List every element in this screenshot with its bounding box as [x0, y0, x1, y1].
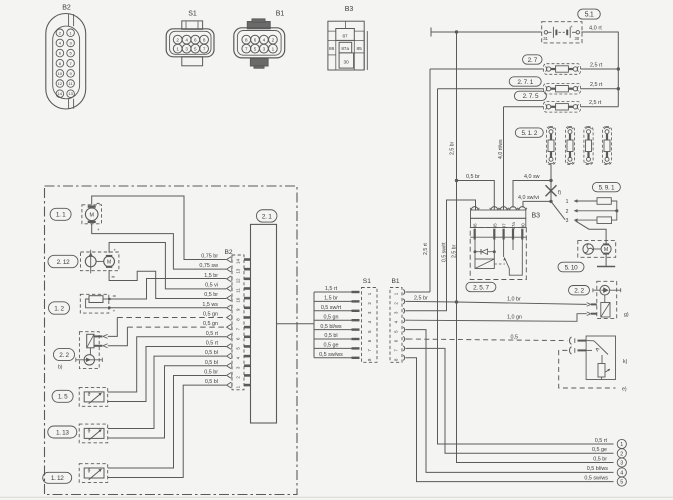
svg-text:0,5 ge: 0,5 ge: [324, 343, 339, 349]
relay socket B3 (face view): [328, 21, 367, 70]
S1 male pin 6: [352, 338, 360, 340]
svg-text:0,5 bl: 0,5 bl: [205, 379, 218, 385]
terminal 3 circle: [617, 458, 626, 467]
svg-text:5: 5: [367, 330, 372, 333]
fuse 5.1.2-3: [584, 127, 593, 165]
wire fuse 2.7 input: [430, 68, 544, 70]
blower 5.10 label: [558, 262, 584, 272]
svg-text:2: 2: [272, 37, 275, 42]
svg-text:M: M: [89, 213, 94, 219]
wire 0,5 rt fuse 2.7.1 down: [438, 89, 614, 444]
svg-text:2,5 br: 2,5 br: [414, 295, 428, 301]
svg-text:11: 11: [69, 81, 74, 86]
wire 0,5 br 1.12 to B2.2: [108, 375, 227, 468]
wire 4,0 rt/ws fuse 2.7.5 to relay 30: [503, 107, 505, 210]
svg-text:2: 2: [176, 37, 179, 42]
svg-text:10: 10: [58, 71, 63, 76]
svg-text:0,5 sw/ws: 0,5 sw/ws: [584, 475, 608, 481]
svg-text:2. 2: 2. 2: [574, 288, 584, 295]
svg-text:2,5 rt: 2,5 rt: [590, 63, 603, 69]
svg-text:3: 3: [236, 366, 241, 369]
wire 0,5 bl to S1 pin 6: [314, 338, 352, 340]
svg-text:5.1: 5.1: [585, 12, 594, 19]
svg-text:+: +: [97, 227, 100, 232]
svg-text:1: 1: [236, 385, 241, 388]
fuse 5.1.2-4: [602, 127, 611, 165]
fuse 2.7 label: [523, 55, 543, 64]
fuse bank 5.1.2 label: [515, 128, 543, 137]
splice f) X symbol: [546, 185, 557, 196]
svg-text:5: 5: [194, 46, 197, 51]
connector strip B1 housing with contacts: [390, 288, 408, 363]
wire 0,5 ge B1.7 to terminal 2: [408, 348, 614, 453]
svg-text:30: 30: [575, 36, 580, 41]
svg-text:2. 5. 7: 2. 5. 7: [473, 284, 489, 291]
wire 0,5 sw/rt to S1 pin 3: [314, 310, 352, 312]
svg-text:4: 4: [394, 320, 399, 323]
svg-text:+: +: [113, 248, 116, 253]
svg-text:4,0 rt: 4,0 rt: [589, 25, 602, 31]
svg-text:0,5 bl: 0,5 bl: [205, 350, 218, 356]
svg-text:5: 5: [620, 480, 623, 486]
harness bundle vertical: [313, 292, 315, 358]
fuse 2.7: [544, 64, 581, 75]
svg-text:1,5 br: 1,5 br: [324, 296, 338, 302]
S1 male pin 1: [352, 291, 360, 293]
terminal 4 circle: [617, 468, 626, 477]
wire 0,75 br 1.1 to B2.14: [92, 196, 227, 260]
junction dot 4,0 sw/vi: [549, 200, 552, 203]
wire 0,5 sw/rt B1.3 to relay 86: [408, 200, 476, 311]
fuse 2.7.1 label: [509, 77, 541, 86]
svg-text:30: 30: [344, 60, 350, 66]
svg-text:5. 9. 1: 5. 9. 1: [599, 184, 615, 191]
svg-text:M: M: [107, 260, 111, 266]
svg-text:1: 1: [69, 30, 72, 35]
svg-text:0,75 sw: 0,75 sw: [199, 263, 218, 269]
wire e) (dashed): [559, 350, 616, 388]
svg-text:4: 4: [185, 37, 188, 42]
svg-text:ϑ: ϑ: [88, 468, 91, 474]
terminal end bar at wire start: [430, 28, 432, 37]
svg-text:0,5 br: 0,5 br: [466, 174, 480, 180]
relay 2.5.7 (coil, freewheel diode, changeover contact): [470, 228, 526, 280]
control unit 2.1 label: [256, 210, 277, 222]
wire 2,5 rt B1.1 from fuse 2.7: [408, 291, 431, 293]
svg-text:7: 7: [367, 349, 372, 352]
svg-text:0,5 br: 0,5 br: [204, 292, 218, 298]
temperature sensor 1.5: [79, 388, 108, 407]
relay 2.5.7 label: [466, 282, 496, 291]
wire 4,0 sw relay pin4 to fan fuse: [513, 181, 551, 208]
wire fuse 2.7.1 to bus: [581, 88, 619, 90]
wire 1,0 gn B1.4 to g): [408, 314, 587, 322]
svg-text:0,5 vi: 0,5 vi: [205, 282, 218, 288]
svg-text:4: 4: [263, 37, 266, 42]
S1 male pin 5: [352, 328, 360, 330]
svg-text:0,5 bl: 0,5 bl: [324, 333, 337, 339]
svg-text:2,5 br: 2,5 br: [451, 244, 457, 258]
svg-text:31: 31: [543, 36, 548, 41]
wire 0,5 br 2.12 to B2.10: [109, 270, 226, 298]
svg-text:3: 3: [263, 46, 266, 51]
svg-text:3: 3: [69, 40, 72, 45]
wire 1,5 rt to S1 pin 1: [314, 291, 352, 293]
connector B1 (8-pin face view): [234, 19, 285, 68]
svg-text:0,5 br: 0,5 br: [593, 456, 607, 462]
component 1.12 label: [43, 472, 72, 483]
svg-text:B3: B3: [532, 213, 541, 220]
svg-text:6: 6: [394, 339, 399, 342]
svg-text:87a: 87a: [341, 46, 349, 51]
wire 2,5 br ground bus: [457, 32, 614, 463]
svg-text:2,5 br: 2,5 br: [450, 141, 456, 155]
wire battery 31 feed (top horizontal): [431, 31, 542, 33]
svg-text:8: 8: [367, 358, 372, 361]
svg-text:6: 6: [367, 339, 372, 342]
svg-text:6: 6: [194, 37, 197, 42]
svg-text:8: 8: [236, 318, 241, 321]
wire 1,5 br to S1 pin 2: [314, 300, 352, 302]
svg-text:12: 12: [236, 278, 241, 283]
svg-text:B3: B3: [345, 6, 354, 13]
svg-text:7: 7: [236, 327, 241, 330]
wire 0,5 bl 1.13 to B2.3: [108, 366, 227, 438]
wire 0,5 bl B1.6 to k) (dashed): [408, 339, 568, 341]
svg-text:8: 8: [59, 61, 62, 66]
svg-text:+: +: [571, 24, 574, 29]
relay socket strip B3 (pins 86 85 87 87a 30): [470, 207, 527, 230]
glow plug 1.2: [80, 294, 116, 313]
page scan edge: [0, 496, 673, 498]
svg-text:0,5 ge: 0,5 ge: [592, 447, 607, 453]
svg-text:7: 7: [245, 46, 248, 51]
svg-text:1: 1: [176, 46, 179, 51]
svg-text:8: 8: [394, 358, 399, 361]
svg-text:M: M: [604, 247, 608, 253]
svg-text:8: 8: [203, 37, 206, 42]
svg-text:b): b): [58, 365, 63, 371]
connector B2 (14-pin face view): [46, 14, 86, 110]
wire 1,5 ws 1.2 to B2.9: [109, 307, 226, 309]
svg-text:5: 5: [394, 330, 399, 333]
svg-text:2,5 rt: 2,5 rt: [589, 100, 602, 106]
svg-text:f): f): [558, 190, 561, 196]
svg-text:e): e): [622, 387, 627, 393]
heater unit boundary (dash-dot box): [45, 186, 298, 495]
ground symbol (5.10): [597, 266, 615, 268]
component 2.2 label (left): [54, 349, 75, 361]
wire through splice: [550, 181, 552, 202]
fuse 5.1.2-2: [565, 127, 574, 165]
svg-text:2. 1: 2. 1: [262, 213, 272, 220]
flame sensor 1.12: [79, 464, 108, 483]
component 2.12 label: [48, 255, 78, 267]
svg-text:0,5 rt: 0,5 rt: [206, 331, 219, 337]
svg-text:1,5 rt: 1,5 rt: [325, 286, 338, 292]
svg-text:ϑ: ϑ: [88, 392, 91, 398]
blower motor 5.10 (fan + M): [578, 241, 616, 258]
svg-text:2. 7: 2. 7: [528, 57, 538, 64]
svg-text:8: 8: [245, 37, 248, 42]
svg-text:1: 1: [566, 199, 569, 205]
svg-text:5. 1. 2: 5. 1. 2: [521, 130, 537, 137]
svg-text:2: 2: [236, 376, 241, 379]
pump motor 2.12 (water pump): [81, 248, 119, 277]
wire 0,5 bl 1.13 to B2.4: [108, 356, 227, 428]
svg-text:9: 9: [236, 308, 241, 311]
svg-text:5: 5: [69, 51, 72, 56]
svg-text:S1: S1: [363, 278, 371, 285]
svg-text:5: 5: [254, 46, 257, 51]
sensor g) symbol (gauge + thermo resistor): [587, 281, 621, 318]
wire 0,5 vi 2.12 to B2.11: [109, 243, 226, 289]
junction dot 4,0 sw: [549, 179, 552, 182]
wire 0,75 sw 1.1 to B2.13: [92, 224, 227, 269]
wire 2,5 rt fuse 2.7 to B1 pin1: [429, 69, 431, 292]
svg-text:1. 1: 1. 1: [56, 212, 66, 219]
svg-text:3: 3: [185, 46, 188, 51]
svg-text:1. 13: 1. 13: [56, 429, 69, 436]
fuse 2.7.5 label: [514, 91, 546, 100]
sensor 2.2 b) (overheat sensor + gauge): [76, 332, 108, 369]
svg-text:11: 11: [236, 288, 241, 293]
junction dot bus/2.7.1: [617, 87, 620, 90]
svg-text:B1: B1: [392, 278, 400, 285]
wire 0,5 br to relay pin2: [457, 181, 495, 211]
svg-text:5. 10: 5. 10: [565, 264, 578, 271]
fuse 5.1.2-1: [546, 127, 555, 165]
connector strip S1 housing with pin numbers: [362, 288, 378, 363]
svg-text:1. 5: 1. 5: [58, 394, 68, 401]
wire 0,5 sw/ws to S1 pin 8: [314, 357, 352, 359]
wire 0,5 rt 1.5 to B2.6: [108, 337, 227, 392]
svg-text:ϑ: ϑ: [88, 429, 91, 435]
svg-text:2: 2: [59, 30, 62, 35]
svg-text:0,5 sw/rt: 0,5 sw/rt: [321, 305, 342, 311]
wire 1,5 br 1.2 to B2.12: [109, 278, 226, 299]
component 1.13 label: [48, 426, 77, 438]
component 1.5 label: [52, 390, 73, 402]
battery 5.1 label: [578, 9, 601, 19]
wire 0,5 bl/ws to S1 pin 5: [314, 329, 352, 331]
wire fuse 2.7.5 input: [504, 106, 544, 108]
S1 male pin 3: [352, 310, 360, 312]
S1 male pin 7: [352, 347, 360, 349]
wire fuse 5.1.2-1 to 4,0 sw node: [550, 165, 552, 181]
wire 0,5 gn B2.7 dashed part: [127, 326, 226, 328]
wire 0,5 bl 1.12 to B2.1: [108, 385, 227, 477]
wire 0,5 gn 2.2 to B2.7: [108, 327, 128, 346]
svg-text:87a: 87a: [511, 222, 516, 230]
wire 0,5 sw/ws B1.8 to terminal 5: [408, 358, 614, 482]
svg-text:2: 2: [394, 302, 399, 305]
wire 0,5 gn 2.2 to B2.8: [108, 317, 118, 336]
overheat sensor 1.13: [79, 424, 108, 443]
wire fuse 2.7 to bus: [581, 68, 619, 70]
svg-text:4: 4: [236, 356, 241, 359]
switch k) with resistor: [569, 336, 615, 380]
svg-text:2. 12: 2. 12: [57, 259, 70, 266]
wire fuse 2.7.1 input: [438, 88, 544, 90]
svg-text:0,5 br: 0,5 br: [204, 369, 218, 375]
svg-text:3: 3: [566, 218, 569, 224]
svg-text:14: 14: [58, 91, 63, 96]
connector S1 (8-pin face view): [166, 21, 214, 66]
S1 male pin 2: [352, 300, 360, 302]
wire 4,0 sw/vi relay pin5 to splice: [523, 201, 551, 207]
svg-text:87: 87: [342, 33, 348, 38]
terminal 1 circle: [617, 439, 626, 448]
wire switch to blower motor: [576, 221, 607, 244]
component 1.1 label: [50, 208, 71, 220]
svg-text:1. 2: 1. 2: [54, 305, 64, 312]
svg-text:2. 7. 5: 2. 7. 5: [523, 93, 539, 100]
svg-text:7: 7: [203, 46, 206, 51]
svg-text:4,0 rt/ws: 4,0 rt/ws: [498, 139, 504, 159]
svg-text:14: 14: [236, 259, 241, 264]
svg-text:1: 1: [620, 442, 623, 448]
switch 5.9.1 (3-position, 2 resistors): [551, 198, 618, 224]
svg-text:3: 3: [367, 311, 372, 314]
junction dot on ground bus (0,5 br): [455, 179, 458, 182]
svg-text:1. 12: 1. 12: [51, 475, 64, 482]
svg-text:4: 4: [620, 470, 623, 476]
svg-text:13: 13: [68, 91, 73, 96]
terminal 5 circle: [617, 477, 626, 486]
svg-text:0,5 gn: 0,5 gn: [203, 311, 218, 317]
wire 1,0 br B1.2 to g): [408, 301, 587, 304]
svg-text:2: 2: [620, 451, 623, 457]
svg-text:6: 6: [254, 37, 257, 42]
svg-text:2,5 rt: 2,5 rt: [423, 243, 429, 255]
control unit 2.1 box: [251, 224, 277, 423]
battery 5.1 symbol: [542, 22, 582, 43]
svg-text:0,5: 0,5: [511, 334, 519, 340]
svg-text:85: 85: [357, 46, 363, 52]
svg-text:7: 7: [69, 61, 72, 66]
svg-text:7: 7: [394, 349, 399, 352]
svg-text:1: 1: [272, 46, 275, 51]
svg-text:2: 2: [367, 302, 372, 305]
svg-text:6: 6: [236, 337, 241, 340]
fuse 2.7.5: [544, 102, 581, 113]
svg-text:1,0 gn: 1,0 gn: [507, 315, 522, 321]
junction dot bus/2.7: [617, 67, 620, 70]
svg-text:12: 12: [58, 81, 63, 86]
svg-text:3: 3: [394, 311, 399, 314]
svg-text:B2: B2: [62, 5, 71, 12]
svg-text:2,5 rt: 2,5 rt: [590, 82, 603, 88]
svg-text:+: +: [113, 309, 116, 314]
svg-text:3: 3: [620, 461, 623, 467]
svg-text:0,5 gn: 0,5 gn: [203, 321, 218, 327]
svg-text:2: 2: [566, 209, 569, 215]
svg-text:13: 13: [236, 268, 241, 273]
junction dot br/ground-bus: [455, 300, 458, 303]
svg-text:5: 5: [236, 347, 241, 350]
svg-text:1,5 ws: 1,5 ws: [202, 302, 218, 308]
wire fuse 2.7.5 to bus: [581, 106, 619, 108]
svg-text:0,5 bl/ws: 0,5 bl/ws: [587, 466, 609, 472]
wire 0,5 gn B2.8 dashed part: [117, 316, 226, 318]
svg-text:1,5 br: 1,5 br: [204, 273, 218, 279]
svg-text:6: 6: [59, 51, 62, 56]
wire 0,5 rt 1.5 to B2.5: [108, 346, 227, 401]
motor 1.1 (combustion air fan): [82, 203, 102, 231]
svg-text:4,0 sw/vi: 4,0 sw/vi: [518, 195, 539, 201]
S1 male pin 4: [352, 319, 360, 321]
svg-text:g): g): [624, 312, 629, 318]
svg-text:2. 2: 2. 2: [59, 352, 69, 359]
svg-text:B1: B1: [276, 11, 285, 18]
svg-text:1,0 br: 1,0 br: [507, 296, 521, 302]
svg-text:0,75 br: 0,75 br: [201, 254, 218, 260]
wire motor to ground: [605, 255, 607, 267]
svg-text:4: 4: [367, 320, 372, 323]
svg-text:4: 4: [59, 40, 62, 45]
svg-text:S1: S1: [188, 11, 197, 18]
switch 5.9.1 label: [592, 182, 620, 191]
wire 0,5 gn to S1 pin 4: [314, 319, 352, 321]
svg-text:0,5 gn: 0,5 gn: [324, 314, 339, 320]
svg-text:4,0 sw: 4,0 sw: [524, 174, 540, 180]
terminal 2 circle: [617, 449, 626, 458]
svg-text:2. 7. 1: 2. 7. 1: [517, 79, 533, 86]
component 1.2 label: [49, 302, 70, 314]
svg-text:0,5 rt: 0,5 rt: [206, 340, 219, 346]
junction dot 2,5 br drop: [455, 30, 458, 33]
connector strip B2 housing with pins and control unit pads: [227, 255, 251, 390]
svg-text:B2: B2: [225, 249, 233, 256]
svg-text:1: 1: [394, 292, 399, 295]
wire 0,5 bl/ws B1.5 to terminal 4: [408, 330, 614, 473]
svg-text:86: 86: [329, 46, 335, 52]
svg-text:0,5 sw/ws: 0,5 sw/ws: [319, 352, 343, 358]
wire 2.1 feed to S1 harness: [277, 323, 315, 325]
sensor 2.2 label (right): [569, 286, 590, 295]
wire 4,0 rt battery to bus: [581, 32, 618, 107]
svg-text:10: 10: [236, 297, 241, 302]
svg-text:9: 9: [69, 71, 72, 76]
fuse 2.7.1: [544, 83, 581, 94]
wire 0,5 ge to S1 pin 7: [314, 347, 352, 349]
svg-text:1: 1: [367, 292, 372, 295]
svg-text:0,5 bl/ws: 0,5 bl/ws: [320, 324, 342, 330]
S1 male pin 8: [352, 357, 360, 359]
svg-text:k): k): [623, 359, 628, 365]
svg-text:0,5 bl: 0,5 bl: [205, 360, 218, 366]
svg-text:0,5 rt: 0,5 rt: [595, 438, 608, 444]
